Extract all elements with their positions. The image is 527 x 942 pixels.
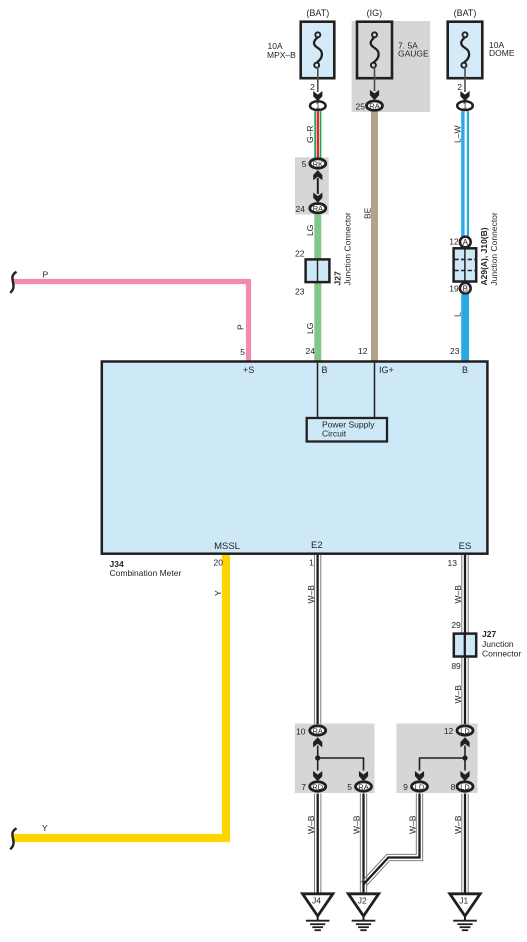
svg-text:P: P — [236, 324, 246, 330]
svg-text:LG: LG — [305, 323, 315, 334]
svg-text:Circuit: Circuit — [322, 429, 347, 439]
junction node dot — [315, 755, 320, 760]
ground J2 — [348, 894, 378, 930]
connector oval RK (pin 5) — [310, 159, 326, 168]
svg-text:P: P — [43, 270, 49, 280]
svg-text:J2: J2 — [358, 896, 367, 906]
svg-text:Junction Connector: Junction Connector — [489, 212, 499, 285]
shield gray background around relay block LD ovals (bottom right) — [397, 724, 478, 794]
lead from fuse GAUGE to connector arrow — [374, 67, 376, 91]
svg-text:+S: +S — [243, 365, 254, 375]
ground J1 — [450, 894, 480, 930]
svg-text:10: 10 — [296, 727, 306, 737]
svg-text:1: 1 — [316, 102, 321, 111]
connector arrow into oval 1 (right) — [460, 91, 469, 101]
wire W-B from LD 9 joining J2 ground run — [361, 794, 423, 886]
wire G-R (green/red) from oval 1 to RK — [314, 111, 321, 158]
svg-text:12: 12 — [449, 237, 459, 247]
power supply circuit box — [307, 418, 387, 442]
svg-text:W–B: W–B — [453, 685, 463, 704]
J27 (bottom) divider — [464, 633, 466, 657]
ground J4 — [303, 894, 333, 930]
svg-text:W–B: W–B — [352, 815, 362, 834]
svg-text:13: 13 — [448, 558, 458, 568]
junction connector A29(A)/J10(B) circle A — [460, 237, 471, 248]
connector arrow into oval 1 (left) — [313, 91, 322, 101]
svg-text:BE: BE — [362, 207, 372, 219]
connector oval LD (pin 9) — [412, 782, 428, 791]
svg-text:7: 7 — [301, 782, 306, 792]
connector oval LD (pin 8) — [457, 782, 473, 791]
svg-text:A29(A), J10(B): A29(A), J10(B) — [479, 227, 489, 285]
svg-text:RA: RA — [313, 204, 323, 213]
svg-text:DOME: DOME — [489, 48, 515, 58]
svg-text:ES: ES — [459, 541, 472, 552]
svg-text:L–W: L–W — [453, 126, 463, 143]
svg-text:MSSL: MSSL — [214, 541, 240, 552]
svg-text:RD: RD — [312, 782, 323, 791]
arrow up into RK — [313, 170, 322, 180]
svg-text:LD: LD — [415, 782, 425, 791]
svg-text:LD: LD — [460, 726, 470, 735]
svg-text:L: L — [453, 312, 463, 317]
svg-text:RA: RA — [312, 726, 322, 735]
svg-text:IG+: IG+ — [379, 365, 394, 375]
svg-text:8: 8 — [451, 782, 456, 792]
break symbol at left end of wire P — [10, 272, 16, 293]
svg-text:1: 1 — [309, 558, 314, 568]
link line from LD 12 down to junction node — [464, 746, 466, 771]
wire BE (beige) from RA 25 to combination meter pin 12 — [371, 112, 378, 362]
svg-text:LG: LG — [305, 225, 315, 236]
svg-text:24: 24 — [306, 346, 316, 356]
arrow down into RD 7 — [313, 771, 322, 781]
fuse DOME 10A (BAT) — [448, 8, 515, 78]
A29 box vertical divider — [464, 249, 466, 281]
branch line from node to LD 9 drop — [420, 758, 466, 771]
junction connector J27 (top) box — [306, 259, 330, 282]
svg-text:A: A — [463, 238, 469, 247]
branch line from node to RA 5 drop — [318, 758, 364, 771]
wire W-B from ES to LD pin 12 — [462, 555, 468, 724]
junction connector A29(A)/J10(B) box — [454, 248, 477, 281]
internal line from pin 24 (B) to power supply circuit — [317, 363, 319, 418]
wire L (blue) from junction connector B to combination meter pin 23 — [461, 295, 469, 362]
svg-text:1: 1 — [463, 102, 468, 111]
svg-text:20: 20 — [214, 558, 224, 568]
junction connector J27 (bottom) box — [454, 634, 476, 657]
internal line from pin 12 (IG+) to power supply circuit — [374, 363, 376, 418]
wire W-B from LD 8 to ground J1 — [462, 794, 468, 896]
svg-text:J1: J1 — [459, 896, 468, 906]
arrow down into LD 8 — [460, 771, 469, 781]
svg-text:E2: E2 — [311, 540, 323, 551]
svg-text:W–B: W–B — [306, 815, 316, 834]
fuse GAUGE 7.5A (IG) — [357, 8, 429, 78]
svg-text:RA: RA — [358, 782, 368, 791]
arrow up into RA 10 — [313, 737, 322, 747]
svg-text:23: 23 — [450, 346, 460, 356]
svg-text:Y: Y — [42, 823, 48, 833]
junction connector A29(A)/J10(B) circle B — [460, 283, 471, 294]
shield gray background around GAUGE fuse — [352, 21, 431, 112]
svg-text:J4: J4 — [312, 896, 321, 906]
svg-text:29: 29 — [451, 620, 461, 630]
arrow down into RA — [313, 193, 322, 203]
svg-text:W–B: W–B — [306, 585, 316, 604]
svg-text:(BAT): (BAT) — [454, 8, 477, 18]
lead from fuse MPX-B to connector arrow — [317, 67, 319, 92]
svg-text:22: 22 — [295, 249, 305, 259]
svg-text:B: B — [322, 365, 328, 375]
link line from RA 10 down to junction node — [317, 746, 319, 771]
svg-text:25: 25 — [356, 102, 366, 112]
svg-text:(IG): (IG) — [367, 8, 383, 18]
svg-text:(BAT): (BAT) — [306, 8, 329, 18]
svg-text:J27: J27 — [333, 271, 343, 285]
svg-text:G–R: G–R — [305, 126, 315, 143]
svg-text:B: B — [462, 365, 468, 375]
svg-text:5: 5 — [302, 159, 307, 169]
break symbol at left end of wire Y — [10, 828, 16, 849]
shield gray background around relay block RA/RD ovals (bottom left) — [295, 724, 375, 794]
connector oval LD (pin 12) — [457, 726, 473, 735]
svg-text:12: 12 — [358, 346, 368, 356]
connector oval RA (instrument panel wire) — [367, 101, 383, 110]
connector oval RA (pin 24) — [310, 204, 326, 213]
svg-text:GAUGE: GAUGE — [398, 48, 429, 58]
wire W-B from E2 to RA pin 10 — [314, 555, 320, 724]
fuse MPX-B 10A (BAT) — [267, 8, 334, 78]
svg-text:W–B: W–B — [453, 815, 463, 834]
connector oval 1 (right) — [457, 101, 473, 110]
svg-text:2: 2 — [457, 82, 462, 92]
connector oval 1 (left) — [310, 101, 326, 110]
svg-text:W–B: W–B — [408, 815, 418, 834]
svg-text:Combination Meter: Combination Meter — [110, 568, 182, 578]
connector oval RA (pin 5) — [356, 782, 372, 791]
connector oval RA (pin 10) — [310, 726, 326, 735]
svg-text:Y: Y — [213, 590, 223, 596]
svg-text:MPX–B: MPX–B — [267, 50, 296, 60]
wire L-W (blue/white) from oval 1 to junction connector A — [461, 111, 469, 248]
svg-text:19: 19 — [449, 284, 459, 294]
wire P (pink) from left break to +S — [13, 282, 249, 362]
wire W-B from RA 5 to ground J2 — [360, 794, 366, 896]
A29 box dashed row line 2 — [455, 270, 476, 272]
shield gray background around RK/RA junction ovals — [295, 157, 329, 214]
svg-text:24: 24 — [296, 204, 306, 214]
link line between RK and RA arrows — [317, 178, 319, 194]
svg-text:12: 12 — [444, 726, 454, 736]
combination meter J34 box — [102, 362, 488, 554]
junction node dot — [462, 755, 467, 760]
wire LG (light green) from RA to combination meter pin 24 — [314, 214, 321, 361]
arrow down into RA 5 — [359, 771, 368, 781]
svg-text:RK: RK — [313, 159, 323, 168]
connector arrow into oval RA (pin 25) — [370, 90, 379, 100]
svg-text:B: B — [463, 284, 468, 293]
svg-text:89: 89 — [451, 661, 461, 671]
wire W-B from RD 7 to ground J4 — [315, 794, 321, 896]
svg-text:5: 5 — [347, 782, 352, 792]
svg-text:Connector: Connector — [482, 649, 521, 659]
svg-text:RA: RA — [369, 102, 379, 111]
svg-text:9: 9 — [403, 782, 408, 792]
svg-text:23: 23 — [295, 287, 305, 297]
svg-text:2: 2 — [310, 82, 315, 92]
svg-text:Junction: Junction — [482, 639, 514, 649]
A29 box dashed row line 1 — [455, 258, 476, 260]
J27 (top) divider — [317, 260, 319, 282]
svg-text:J27: J27 — [482, 629, 496, 639]
svg-text:LD: LD — [460, 782, 470, 791]
connector oval RD (pin 7) — [310, 782, 326, 791]
svg-text:5: 5 — [240, 347, 245, 357]
svg-text:W–B: W–B — [453, 585, 463, 604]
arrow down into LD 9 — [415, 771, 424, 781]
lead from fuse DOME to connector arrow — [464, 67, 466, 92]
arrow up into LD 12 — [460, 737, 469, 747]
wire Y (yellow) from MSSL to left break — [13, 554, 226, 838]
svg-text:Junction Connector: Junction Connector — [343, 212, 353, 285]
